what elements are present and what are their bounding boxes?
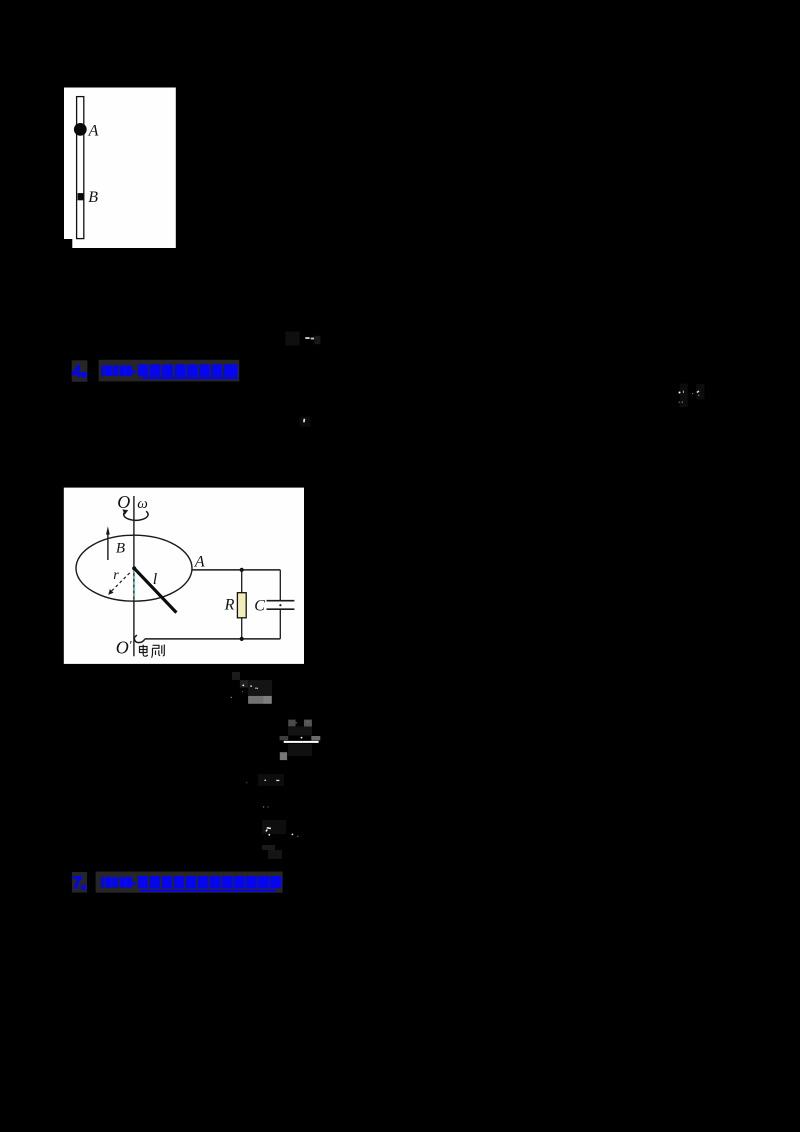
question 4 row highlight	[72, 360, 88, 382]
bottom wire	[145, 638, 281, 640]
svg-text:7: 7	[72, 873, 81, 892]
cyan dashed radius	[133, 570, 135, 600]
svg-text:r: r	[113, 568, 119, 583]
fragment tick	[300, 417, 311, 427]
top wire	[192, 569, 280, 571]
rod l	[134, 568, 176, 612]
question 7 row highlight	[72, 872, 87, 893]
svg-text:A: A	[88, 123, 99, 140]
rod AB	[77, 97, 84, 239]
axis O-O'	[133, 496, 135, 656]
figure 2 panel	[64, 488, 304, 664]
dashed radius r arrow	[112, 573, 130, 591]
question 4 source link	[101, 364, 238, 379]
figure 1 panel	[64, 88, 176, 249]
center node	[132, 566, 136, 570]
fragment omega top	[286, 332, 321, 346]
wire right branch upper	[279, 570, 281, 600]
fragment script mark	[262, 820, 298, 859]
fragment fraction	[280, 720, 321, 761]
capacitor C top plate	[267, 600, 295, 602]
fragment right formula	[679, 384, 705, 407]
ring B	[78, 193, 84, 200]
wire R branch lower	[241, 618, 243, 639]
svg-text:C: C	[254, 598, 265, 615]
svg-text:l: l	[153, 571, 158, 588]
rotation arc	[124, 511, 148, 520]
figure 1 notch	[64, 239, 72, 248]
question 4 number	[72, 362, 87, 381]
svg-text:ω: ω	[137, 496, 148, 512]
label dianshua (brush)	[140, 645, 165, 658]
fragment integral omega	[231, 672, 273, 704]
svg-text:B: B	[88, 189, 98, 206]
question 7 source link	[101, 876, 281, 892]
question 7 number	[72, 873, 86, 892]
svg-text:O: O	[117, 492, 130, 512]
brush hook	[134, 635, 144, 643]
ring A	[74, 123, 87, 136]
node top junction	[240, 568, 244, 572]
resistor R	[237, 593, 246, 618]
fragment small integral	[246, 774, 284, 808]
svg-text:B: B	[116, 540, 125, 556]
svg-text:4: 4	[72, 362, 82, 381]
capacitor dot	[279, 604, 281, 606]
wire R branch upper	[241, 570, 243, 593]
wire right branch lower	[279, 609, 281, 639]
capacitor C bottom plate	[267, 608, 295, 610]
disc ellipse	[76, 535, 192, 601]
svg-text:R: R	[224, 596, 235, 613]
svg-text:A: A	[194, 554, 205, 571]
B field arrow	[107, 534, 109, 561]
node bottom junction	[240, 637, 244, 641]
